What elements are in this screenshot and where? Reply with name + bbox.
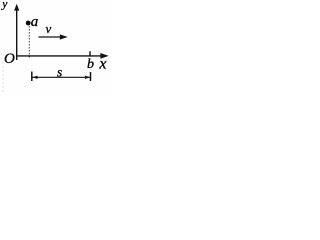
x-axis: [16, 54, 108, 59]
dotted drop line: [28, 26, 30, 59]
dimension left arrowhead: [33, 76, 38, 79]
svg-text:v: v: [46, 21, 52, 36]
tick at b: [89, 51, 91, 56]
dimension line s: right bar: [90, 72, 92, 81]
particle a dot: [26, 21, 31, 26]
dimension right arrowhead: [85, 76, 90, 79]
svg-text:x: x: [98, 56, 106, 73]
dimension line s: left bar: [31, 72, 33, 82]
scan artifact faint left streak: [2, 62, 4, 94]
velocity vector v: [39, 35, 67, 39]
dimension line s: shaft: [33, 76, 91, 78]
svg-text:y: y: [1, 0, 8, 10]
svg-text:O: O: [4, 51, 15, 67]
y-axis: [14, 4, 19, 60]
svg-text:b: b: [87, 57, 94, 72]
svg-text:a: a: [31, 14, 39, 30]
background: [0, 0, 111, 94]
svg-text:s: s: [57, 65, 62, 80]
